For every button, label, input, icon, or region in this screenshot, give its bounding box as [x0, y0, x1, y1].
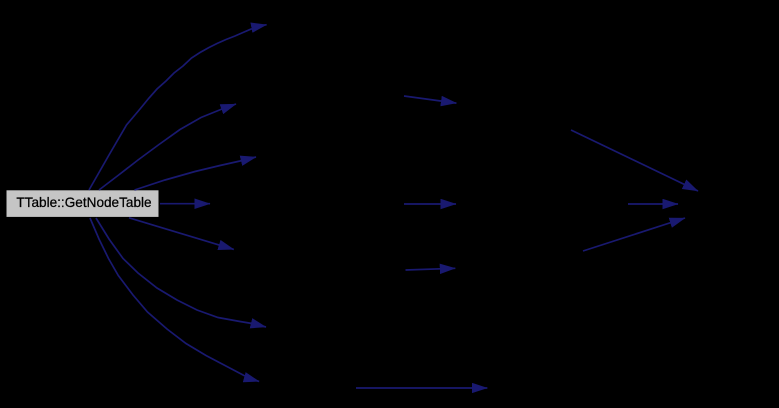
- svg-text:TTable::GetNodeTable: TTable::GetNodeTable: [16, 195, 151, 210]
- edge 3: GetNodeTable to third node: [135, 157, 257, 190]
- edge 9: middle column arrow B: [404, 203, 456, 205]
- edge 14: right column diagonal up: [583, 218, 685, 251]
- edge 12: right column diagonal down: [571, 130, 698, 191]
- edge 11: bottom long horizontal arrow: [356, 387, 487, 389]
- edge 5: GetNodeTable to fifth node: [129, 218, 234, 250]
- edge 13: right column short horizontal: [628, 203, 678, 205]
- node TTable::GetNodeTable: [6, 190, 159, 218]
- edge 10: middle column arrow C: [406, 268, 456, 270]
- edge 6: GetNodeTable to sixth node: [96, 218, 266, 327]
- edge 2: GetNodeTable to second node: [99, 104, 236, 190]
- edge 4: GetNodeTable to fourth node (horizontal): [160, 203, 210, 205]
- edge 1: GetNodeTable to top node: [89, 25, 267, 190]
- edge 8: middle column arrow A: [404, 96, 456, 103]
- edge 7: GetNodeTable to seventh node: [90, 218, 259, 381]
